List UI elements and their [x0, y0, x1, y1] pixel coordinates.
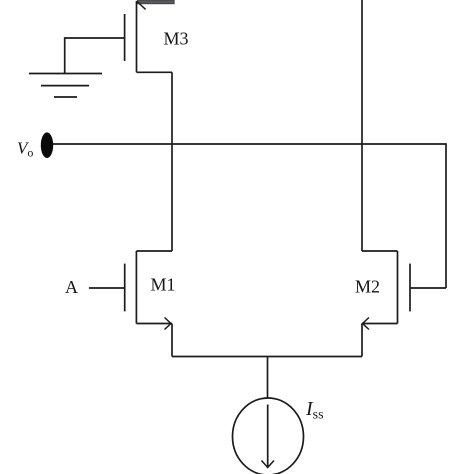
svg-text:A: A: [65, 277, 78, 297]
wire (rail tap down to current source): [267, 357, 269, 399]
svg-text:M3: M3: [164, 29, 189, 49]
wire (M2 gate to Vo feedback line): [410, 287, 446, 289]
wire (Vo output line, across to M2 gate): [53, 144, 446, 288]
node Vo: [41, 132, 53, 158]
transistor M1: [125, 251, 172, 357]
svg-text:Iss: Iss: [305, 398, 324, 423]
wire (M2 drain from top of figure): [361, 0, 363, 251]
svg-text:M1: M1: [151, 275, 176, 295]
transistor M3: [125, 1, 172, 72]
wire (common source rail): [172, 356, 362, 358]
ground: [29, 74, 102, 98]
wire (M3 gate to ground): [65, 38, 125, 74]
current source Iss: [233, 398, 304, 474]
wire (input A to M1 gate): [89, 287, 125, 289]
svg-text:M2: M2: [355, 277, 380, 297]
wire (top rail stub at M3 source, thick cropped segment): [138, 0, 175, 4]
wire (M3 drain down to M1 drain): [171, 72, 173, 251]
transistor M2: [362, 251, 410, 357]
svg-text:Vo: Vo: [17, 139, 33, 160]
